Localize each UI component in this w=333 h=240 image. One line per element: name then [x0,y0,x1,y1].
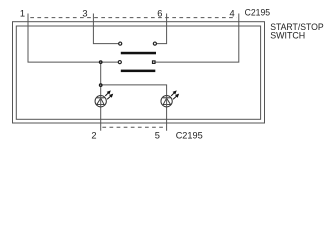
svg-text:4: 4 [230,9,235,19]
svg-text:6: 6 [157,9,162,19]
svg-text:C2195: C2195 [245,8,271,18]
svg-text:5: 5 [155,130,160,140]
svg-text:1: 1 [20,9,25,19]
svg-text:3: 3 [82,9,87,19]
svg-text:SWITCH: SWITCH [270,30,305,40]
svg-text:C2195: C2195 [176,130,203,140]
svg-text:2: 2 [91,130,96,140]
